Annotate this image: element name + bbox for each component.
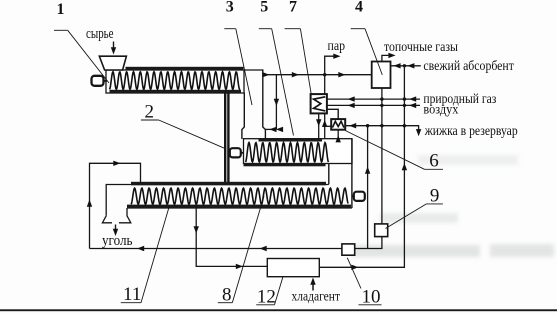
conveyor 2 top jacket bar: [259, 138, 323, 142]
left recycle riser: [90, 163, 141, 248]
condenser zigzag element: [333, 121, 344, 127]
dryer conveyor housing 1 (screw dryer): [106, 70, 244, 93]
absorber column 4: [372, 62, 391, 89]
heater to dryer2 left leg: [318, 113, 320, 139]
riser into heater top: [324, 75, 326, 95]
feed arrow into hopper: [113, 42, 115, 51]
svg-text:воздух: воздух: [423, 102, 458, 117]
liquor line from condenser: [345, 126, 418, 131]
shared right end wall of dryers: [351, 139, 353, 208]
svg-text:свежий абсорбент: свежий абсорбент: [423, 58, 514, 73]
condenser bottom leg from dryer 2: [337, 130, 339, 139]
conveyor 1 top jacket bar: [126, 67, 244, 71]
svg-text:пар: пар: [328, 38, 346, 53]
inner transfer wall: [328, 164, 330, 185]
svg-text:3: 3: [226, 0, 234, 16]
pump square 10: [342, 244, 355, 255]
conveyor 2 bottom jacket bar: [244, 163, 326, 166]
bottom border line: [0, 309, 557, 311]
screw coil of conveyor 3: [131, 188, 348, 204]
conveyor 3 bottom jacket bar: [127, 205, 351, 209]
wire from valve 9 to pump 10: [355, 237, 382, 249]
gas line crossing dots: [380, 97, 383, 100]
return wire from cooler to column: [319, 66, 404, 267]
conveyor 1 bottom jacket bar: [110, 90, 242, 94]
coolant arrow хладагент: [312, 282, 314, 291]
steam branch пар: [325, 56, 335, 74]
coal outlet arrow: [115, 225, 117, 232]
vertical transfer chute (thick double wall): [224, 92, 226, 182]
svg-text:1: 1: [57, 1, 65, 18]
screw coil of conveyor 2: [246, 143, 329, 162]
drop wire from dryer 3 bottom: [196, 208, 267, 266]
dryer conveyor housing 3: [106, 185, 329, 216]
drive motor of conveyor 3: [354, 192, 365, 201]
screw coil of conveyor 1: [110, 72, 241, 90]
svg-text:11: 11: [123, 284, 141, 305]
gas riser to condenser line: [367, 126, 369, 249]
svg-text:8: 8: [222, 284, 232, 305]
vapor recycle drop: [275, 75, 277, 130]
svg-text:7: 7: [289, 0, 297, 16]
condenser left pipe to riser: [325, 125, 332, 127]
drive motor of conveyor 2: [230, 148, 241, 157]
dryer conveyor housing 2: [244, 139, 353, 164]
natural gas line: [327, 98, 420, 100]
junction on vapor header: [323, 73, 326, 76]
fresh absorbent junction: [403, 64, 406, 67]
heater to condenser link: [327, 109, 338, 119]
svg-text:хладагент: хладагент: [292, 288, 341, 303]
liquor line junction with riser A: [366, 124, 369, 127]
heat exchanger U2 (condenser 6): [331, 119, 345, 130]
drive motor of conveyor 1: [92, 76, 104, 86]
svg-text:уголь: уголь: [102, 233, 133, 249]
air line: [327, 104, 420, 106]
svg-text:жижка в резервуар: жижка в резервуар: [424, 123, 518, 138]
valve square 9: [375, 224, 388, 237]
conveyor 3 top jacket bar: [131, 182, 326, 186]
svg-text:9: 9: [430, 185, 440, 206]
svg-text:4: 4: [355, 0, 363, 16]
scan ghost noise: [352, 155, 554, 257]
flue gas outlet: [382, 55, 390, 61]
duct right wall down to dryer 2: [263, 69, 266, 139]
heater zigzag element: [314, 97, 326, 111]
heat exchanger U1 (steam heater 7): [311, 94, 327, 113]
svg-text:сырье: сырье: [86, 26, 114, 42]
svg-text:топочные газы: топочные газы: [384, 39, 458, 54]
recycle gas wire to left riser: [90, 248, 342, 250]
dryer2 to heater right leg: [324, 113, 326, 139]
feed hopper: [99, 56, 126, 70]
coal discharge spout: [102, 216, 112, 223]
svg-text:6: 6: [429, 150, 439, 171]
duct left wall down to dryer 2: [242, 93, 244, 140]
svg-text:5: 5: [260, 0, 268, 16]
cooler rectangle 12: [267, 259, 319, 277]
vapor recycle return to duct: [265, 128, 276, 130]
conveyor 1 top edge extension to duct: [244, 69, 263, 71]
svg-text:2: 2: [144, 102, 154, 123]
vapor header from dryer 1 to column: [263, 74, 372, 76]
fresh absorbent feed line: [391, 65, 421, 67]
column bottoms wire down to valve 9: [381, 88, 383, 224]
liquor line crossing dots: [380, 124, 383, 127]
